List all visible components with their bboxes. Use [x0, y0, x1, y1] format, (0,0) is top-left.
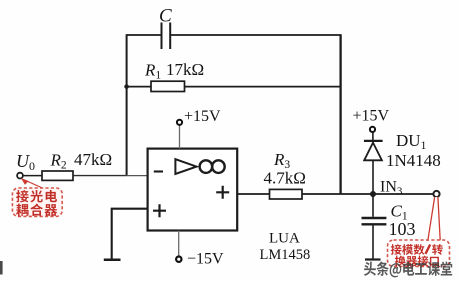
wire output: [237, 193, 436, 195]
svg-text:1N4148: 1N4148: [386, 151, 441, 170]
wire diode anode to IN3: [372, 160, 374, 194]
svg-text:47kΩ: 47kΩ: [74, 150, 112, 169]
op-amp infinity symbol: [200, 160, 225, 173]
op-amp triangle symbol: [175, 159, 196, 174]
svg-text:17kΩ: 17kΩ: [166, 60, 204, 79]
wire top feedback left segment: [127, 34, 162, 36]
wire C1 bottom lead: [372, 226, 374, 260]
op-amp U1 body: [148, 149, 238, 231]
wire diode cathode lead: [372, 132, 374, 141]
terminal +15V diode: [370, 127, 375, 132]
terminal -15V: [176, 257, 181, 262]
annotation text line1 jie guang dian: [16, 190, 29, 202]
callout leader to input annotation: [24, 180, 44, 189]
ground C1: [365, 258, 381, 260]
callout wedge edges: [428, 197, 440, 241]
resistor R1: [151, 81, 185, 91]
annotation text line1 jie mo shu / zhuan: [391, 244, 402, 255]
wire U0 to R2: [23, 175, 42, 177]
wire R1 branch: [127, 86, 341, 88]
wire top feedback right segment: [170, 34, 340, 36]
svg-text:103: 103: [389, 219, 416, 239]
wire R2 to junction: [73, 175, 127, 177]
wire +15V supply lead: [179, 125, 181, 148]
junction left bus / R1 branch: [124, 84, 129, 89]
input terminal U0: [17, 173, 23, 179]
op-amp inverting input minus: [154, 170, 163, 172]
svg-text:C: C: [159, 6, 172, 27]
capacitor C1 plates: [362, 218, 387, 224]
diode DU1 cathode bar: [364, 140, 383, 142]
svg-text:4.7kΩ: 4.7kΩ: [264, 169, 306, 188]
wire left vertical feedback bus: [126, 34, 128, 176]
resistor R3: [270, 189, 303, 199]
wire right vertical feedback bus: [339, 34, 341, 194]
svg-text:LUA: LUA: [269, 231, 300, 247]
capacitor C: [162, 23, 171, 50]
annotation box connect photocoupler: [12, 188, 62, 216]
wire non-inverting input to ground: [112, 209, 148, 260]
op-amp output plus: [216, 186, 229, 199]
terminal +15V op-amp: [177, 120, 182, 125]
junction node IN3: [370, 191, 376, 197]
annotation text line2 ou he qi: [16, 204, 28, 216]
output terminal to ADC: [433, 191, 439, 197]
watermark toutiao dian gong ke tang: [364, 262, 376, 276]
annotation box connect ADC: [388, 240, 450, 267]
diode DU1 triangle: [364, 143, 382, 161]
svg-text:−15V: −15V: [187, 251, 224, 268]
callout wedge to output annotation: [428, 197, 441, 242]
scan artifact left edge bar: [0, 261, 3, 275]
wire -15V supply lead: [178, 231, 180, 257]
svg-text:LM1458: LM1458: [260, 247, 311, 263]
svg-text:+15V: +15V: [353, 108, 390, 125]
svg-text:+15V: +15V: [184, 108, 221, 125]
resistor R2: [42, 171, 73, 180]
wire C1 top lead: [372, 194, 374, 217]
callout arrowhead at U0: [21, 178, 29, 185]
op-amp non-inverting plus: [153, 204, 166, 217]
ground non-inverting input: [104, 258, 121, 261]
annotation text line2 huan qi jie kou: [395, 256, 406, 267]
wire junction to inverting input: [127, 175, 148, 177]
